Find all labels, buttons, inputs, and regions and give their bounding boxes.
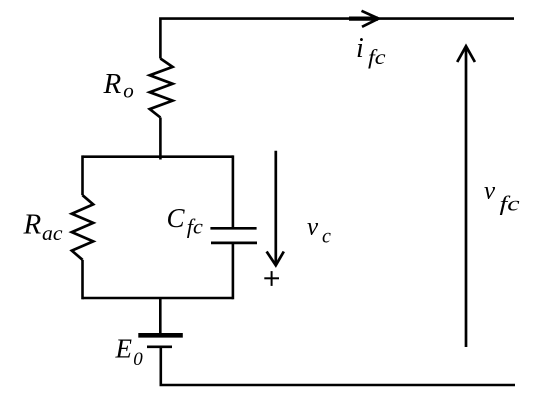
label E_0 [115, 333, 144, 370]
svg-text:c: c [322, 225, 331, 247]
svg-text:R: R [23, 208, 42, 240]
resistor R_ac [72, 195, 93, 260]
svg-text:v: v [484, 178, 496, 205]
label v_c [307, 213, 331, 247]
label v_fc [484, 178, 520, 216]
label C_fc [167, 203, 204, 239]
resistor R_o [150, 59, 173, 118]
svg-text:o: o [123, 79, 134, 103]
svg-text:C: C [167, 203, 186, 233]
label R_o [103, 68, 134, 102]
arrow v_fc (upward, right side) [457, 46, 475, 347]
plus sign (polarity of v_c) [264, 271, 279, 286]
wire: node at box bottom down to battery [159, 298, 162, 334]
battery E_0 [138, 335, 183, 347]
arrow v_c (downward, beside capacitor) [267, 151, 284, 265]
wire: box right edge lower segment [232, 243, 235, 299]
svg-text:R: R [103, 68, 122, 100]
wire: box left edge upper segment [81, 155, 84, 195]
wire: battery bottom lead down then bottom horizontal wire [161, 347, 515, 385]
wire: top horizontal from node above Ro to right side [160, 19, 514, 59]
current arrow i_fc (on top wire) [349, 11, 379, 27]
svg-text:0: 0 [133, 349, 143, 370]
wire: box bottom edge [83, 297, 233, 300]
capacitor C_fc [210, 228, 257, 243]
label i_fc [356, 33, 386, 69]
svg-text:ac: ac [42, 221, 63, 245]
wire: Ro bottom lead down to parallel-box top node [159, 118, 162, 160]
svg-text:fc: fc [368, 45, 386, 69]
svg-text:fc: fc [500, 191, 521, 215]
svg-text:i: i [356, 33, 364, 64]
svg-text:E: E [115, 333, 133, 363]
svg-text:fc: fc [187, 215, 204, 239]
label R_ac [23, 208, 64, 245]
svg-text:v: v [307, 213, 319, 240]
wire: box left edge lower segment [81, 260, 84, 300]
wire: box top edge [83, 155, 233, 158]
wire: box right edge upper segment [232, 155, 235, 228]
